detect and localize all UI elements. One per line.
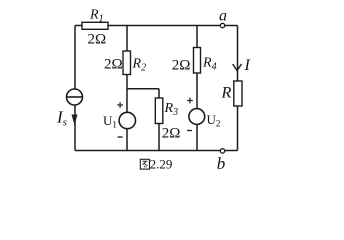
- polarity + of U2: [187, 98, 193, 104]
- wire: R3 branch: [158, 89, 160, 151]
- current arrow I on right branch: [233, 64, 242, 71]
- node b: [220, 149, 224, 153]
- voltage source U1: [119, 112, 135, 128]
- svg-text:2Ω: 2Ω: [88, 32, 107, 48]
- svg-text:I: I: [244, 57, 251, 74]
- wire: top side (node to a and right corner): [75, 25, 238, 27]
- wire: left branch (Is): [74, 26, 76, 151]
- caption glyph 图: [140, 159, 149, 169]
- svg-text:2Ω: 2Ω: [162, 126, 181, 142]
- current arrow on Is branch: [72, 115, 78, 126]
- polarity + of U1: [117, 102, 123, 108]
- svg-text:R2: R2: [132, 57, 147, 74]
- svg-text:b: b: [217, 154, 226, 173]
- polarity - of U1: [118, 136, 123, 138]
- svg-text:R3: R3: [164, 101, 179, 118]
- voltage source U2: [189, 109, 205, 125]
- wire: right branch: [237, 26, 239, 151]
- svg-text:R: R: [221, 85, 232, 102]
- wire: R2-U1 middle branch: [126, 26, 128, 151]
- resistor R3: [155, 98, 163, 124]
- wire: R4-U2 branch: [196, 26, 198, 151]
- node a: [220, 23, 224, 27]
- svg-text:2Ω: 2Ω: [172, 57, 191, 73]
- resistor R2: [123, 51, 131, 75]
- svg-text:U2: U2: [207, 112, 221, 129]
- svg-text:a: a: [219, 8, 227, 25]
- svg-text:Is: Is: [56, 108, 67, 129]
- svg-text:U1: U1: [103, 113, 117, 130]
- resistor R4: [194, 48, 201, 74]
- svg-text:2.29: 2.29: [150, 157, 173, 172]
- svg-text:R4: R4: [202, 56, 217, 73]
- polarity - of U2: [187, 130, 192, 132]
- current source Is: [67, 89, 83, 105]
- svg-text:2Ω: 2Ω: [104, 57, 123, 73]
- resistor R1: [82, 22, 108, 29]
- svg-text:R1: R1: [89, 8, 104, 25]
- wire: junction stub to R3: [127, 88, 159, 90]
- resistor R: [234, 81, 242, 106]
- wire: bottom side: [75, 150, 238, 152]
